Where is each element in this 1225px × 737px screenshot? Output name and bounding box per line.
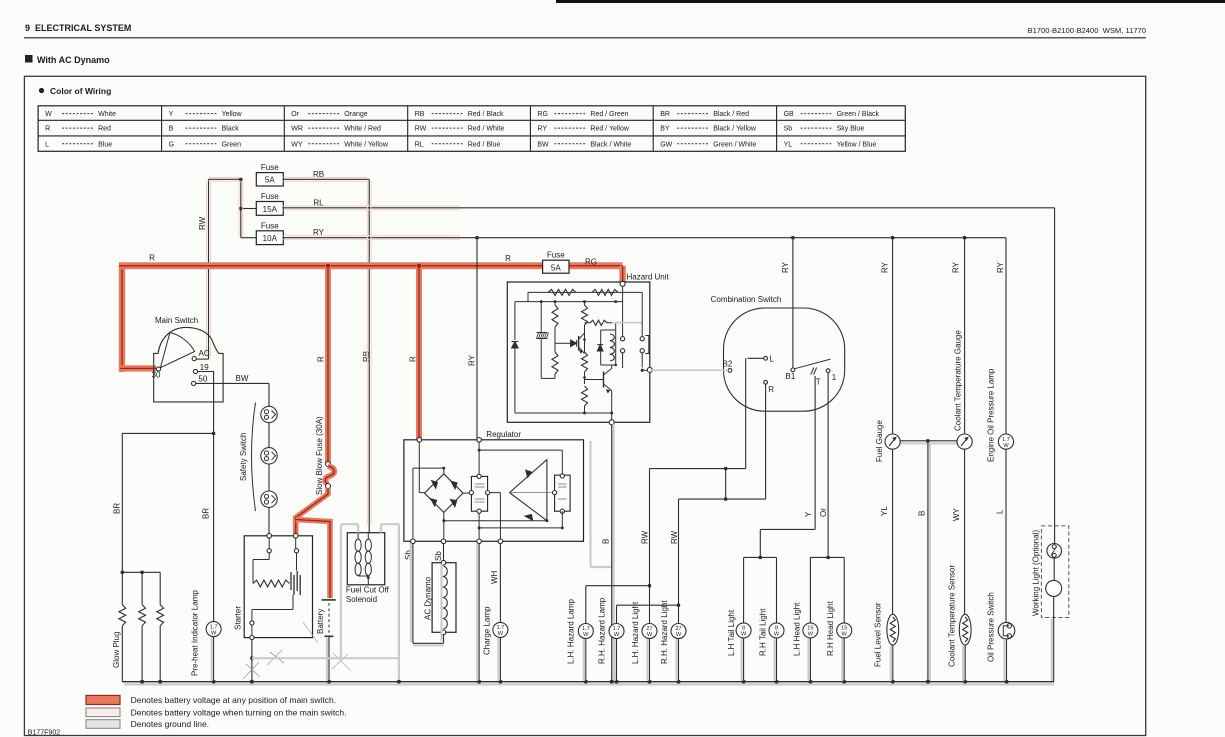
wire RB from fuse 5A bbox=[283, 178, 369, 180]
hazard unit resistor branch 1 bbox=[552, 305, 558, 327]
combination switch terminal R bbox=[764, 380, 768, 384]
svg-text:B: B bbox=[169, 126, 174, 133]
svg-text:R: R bbox=[768, 385, 774, 394]
regulator bottom terminals bbox=[411, 539, 416, 544]
gray wire hazard to B2 bbox=[651, 369, 729, 371]
combination switch terminal 1 bbox=[826, 369, 830, 373]
svg-text:L: L bbox=[45, 141, 49, 148]
wire B hazard to ground bbox=[611, 425, 613, 682]
regulator box bbox=[404, 440, 584, 542]
svg-text:BY: BY bbox=[660, 126, 670, 133]
fuel gauge bbox=[885, 434, 900, 449]
hazard unit terminal right bbox=[647, 367, 652, 372]
ground bus junctions bbox=[140, 680, 144, 684]
wire Y from T terminal bbox=[814, 376, 816, 529]
ground bus gray band bbox=[124, 683, 1054, 685]
solenoid coil left bbox=[355, 539, 361, 551]
svg-text:W: W bbox=[45, 111, 52, 118]
svg-text:Fuse: Fuse bbox=[547, 251, 565, 260]
wire WH bbox=[499, 544, 501, 623]
glow plug junction 1 bbox=[121, 571, 124, 574]
svg-text:RB: RB bbox=[362, 351, 371, 362]
svg-text:9 ELECTRICAL SYSTEM: 9 ELECTRICAL SYSTEM bbox=[25, 23, 131, 33]
safety switch contact 2 bbox=[261, 448, 277, 464]
hazard unit capacitor branch bbox=[540, 302, 542, 332]
svg-text:L.H Head Light: L.H Head Light bbox=[792, 602, 801, 656]
svg-text:B177F902: B177F902 bbox=[28, 730, 60, 737]
svg-text:L: L bbox=[996, 509, 1005, 514]
regulator pilot coil box bbox=[555, 475, 571, 511]
svg-text:Or: Or bbox=[819, 508, 828, 517]
color of wiring heading bbox=[39, 88, 44, 93]
red branch R to slow blow fuse bbox=[325, 266, 331, 463]
svg-text:BR: BR bbox=[113, 503, 122, 514]
ac dynamo terminal top bbox=[441, 560, 446, 565]
combination switch terminal L bbox=[764, 356, 768, 360]
svg-text:RW: RW bbox=[670, 530, 679, 544]
red wire fuse to starter bbox=[296, 488, 328, 534]
hazard unit relay coil bbox=[601, 329, 616, 331]
starter internal link to solenoid contact bbox=[292, 595, 294, 610]
svg-text:WY: WY bbox=[952, 507, 961, 521]
svg-text:Working Light (Optional): Working Light (Optional) bbox=[1032, 530, 1041, 616]
starter contact plates bbox=[290, 572, 292, 590]
svg-text:White / Red: White / Red bbox=[344, 126, 381, 133]
pre-heat indicator lamp bbox=[206, 622, 221, 637]
wire BR to glow plugs bbox=[122, 432, 213, 434]
red wire fuse to battery bbox=[296, 520, 330, 599]
svg-text:B2: B2 bbox=[723, 360, 733, 369]
hazard unit gray link bbox=[612, 322, 642, 324]
svg-text:R: R bbox=[409, 356, 418, 362]
svg-text:Sb: Sb bbox=[784, 126, 793, 133]
svg-text:5A: 5A bbox=[551, 263, 561, 272]
svg-text:L.H. Hazard Light: L.H. Hazard Light bbox=[631, 601, 640, 664]
svg-text:YL: YL bbox=[880, 506, 889, 516]
red wire into main switch terminal 30 bbox=[120, 365, 156, 371]
legend red box bbox=[86, 695, 120, 704]
svg-text:White / Yellow: White / Yellow bbox=[344, 141, 389, 148]
hazard unit resistor branch 2 bbox=[582, 305, 588, 325]
svg-text:Starter: Starter bbox=[234, 606, 243, 630]
coolant temperature sensor ground bbox=[964, 645, 966, 682]
hazard unit transistor Q1 bbox=[578, 336, 580, 351]
RH tail light bbox=[769, 623, 784, 638]
svg-text:RB: RB bbox=[415, 111, 425, 118]
svg-text:RW: RW bbox=[641, 530, 650, 544]
svg-text:RY: RY bbox=[881, 261, 890, 273]
main switch terminal 30 bbox=[156, 367, 160, 371]
svg-text:YL: YL bbox=[784, 141, 793, 148]
svg-text:Coolant Temperature Gauge: Coolant Temperature Gauge bbox=[954, 330, 963, 431]
red junction regulator branch bbox=[417, 264, 421, 268]
svg-text:Fuse: Fuse bbox=[261, 163, 279, 172]
svg-text:Safety Switch: Safety Switch bbox=[239, 433, 248, 481]
svg-text:W: W bbox=[808, 632, 814, 638]
regulator terminal R bbox=[417, 438, 422, 443]
svg-text:W: W bbox=[842, 632, 848, 638]
wire RW2 bbox=[678, 499, 680, 623]
svg-text:RW: RW bbox=[198, 216, 207, 230]
svg-text:50: 50 bbox=[198, 374, 207, 383]
wire BR from terminal 19 bbox=[198, 371, 214, 373]
pink print fringe near fuse block bbox=[206, 181, 208, 357]
regulator internal feed lines bbox=[418, 442, 420, 493]
wire RW1 bbox=[649, 469, 651, 624]
wire RY to B1 bbox=[792, 238, 794, 368]
regulator pilot link line bbox=[510, 492, 555, 494]
svg-text:T: T bbox=[816, 377, 821, 386]
solenoid feed stubs bbox=[357, 533, 359, 539]
wire from L terminal bbox=[748, 357, 764, 359]
ac dynamo terminal bottom bbox=[441, 630, 446, 635]
hazard unit coupling diode bbox=[563, 342, 571, 344]
svg-text:Red / Blue: Red / Blue bbox=[468, 141, 501, 148]
battery cell dashes bbox=[328, 603, 330, 634]
wire L oil lamp to switch bbox=[1005, 449, 1007, 622]
svg-text:R.H. Hazard Light: R.H. Hazard Light bbox=[660, 600, 669, 664]
hazard unit second rail bbox=[515, 301, 623, 303]
starter internal wiring bbox=[268, 538, 270, 549]
svg-text:G: G bbox=[169, 141, 174, 148]
main switch terminal 50 bbox=[192, 381, 196, 385]
junction at fuse feeder top bbox=[239, 178, 242, 181]
starter terminal right bbox=[293, 534, 298, 539]
svg-text:15A: 15A bbox=[263, 205, 278, 214]
wire RY to regulator bbox=[476, 238, 478, 439]
pencil cross marks bbox=[246, 664, 260, 677]
svg-text:RG: RG bbox=[537, 111, 548, 118]
svg-text:R.H Tail Light: R.H Tail Light bbox=[758, 608, 767, 656]
svg-text:RY: RY bbox=[781, 261, 790, 273]
starter resistor bbox=[253, 580, 290, 587]
solenoid coil bottom link bbox=[358, 575, 368, 577]
ac dynamo winding bbox=[444, 566, 448, 629]
svg-text:Engine Oil Pressure Lamp: Engine Oil Pressure Lamp bbox=[987, 368, 996, 462]
svg-text:Pre-heat Indicator Lamp: Pre-heat Indicator Lamp bbox=[191, 590, 200, 676]
svg-text:Or: Or bbox=[291, 111, 299, 118]
svg-text:RG: RG bbox=[585, 257, 597, 266]
svg-text:19: 19 bbox=[200, 363, 209, 372]
tail light pair feed bbox=[744, 556, 777, 558]
battery negative plate bbox=[325, 635, 334, 637]
junction at fuse feeder middle bbox=[239, 207, 242, 210]
svg-text:Y: Y bbox=[804, 511, 813, 517]
glow plug branch wires bbox=[122, 571, 160, 573]
hazard unit terminal top bbox=[620, 281, 625, 286]
hazard unit contact column bbox=[622, 286, 624, 336]
svg-text:Charge Lamp: Charge Lamp bbox=[483, 606, 492, 655]
working light dashed box bbox=[1041, 526, 1068, 618]
wire RW from main switch AC to fuse feed bbox=[208, 179, 210, 359]
svg-text:White: White bbox=[98, 111, 116, 118]
svg-text:Combination Switch: Combination Switch bbox=[711, 295, 782, 304]
wire RY to coolant gauge bbox=[964, 238, 966, 434]
svg-text:1: 1 bbox=[832, 373, 837, 382]
regulator relay to WH link bbox=[490, 492, 501, 494]
regulator bridge to relay link bbox=[463, 492, 469, 494]
battery positive plate bbox=[322, 599, 336, 601]
svg-text:W: W bbox=[498, 631, 504, 637]
page top edge line bbox=[556, 0, 1225, 3]
svg-text:Red / Black: Red / Black bbox=[468, 111, 504, 118]
svg-text:Green / Black: Green / Black bbox=[837, 111, 880, 118]
working light ground bbox=[1053, 596, 1055, 681]
header rule bbox=[24, 37, 1146, 39]
svg-text:Color of Wiring: Color of Wiring bbox=[50, 86, 111, 96]
svg-text:Oil Pressure Switch: Oil Pressure Switch bbox=[986, 592, 995, 662]
svg-text:Red: Red bbox=[98, 126, 111, 133]
RH hazard lamp bbox=[609, 624, 624, 639]
svg-text:R.H Head Light: R.H Head Light bbox=[826, 601, 835, 656]
svg-text:Black / Yellow: Black / Yellow bbox=[713, 126, 757, 133]
LH hazard light bbox=[642, 624, 657, 639]
regulator bottom rail 1 bbox=[443, 512, 445, 520]
svg-text:R: R bbox=[149, 254, 155, 263]
starter terminal left bbox=[267, 534, 272, 539]
wire Sb to dynamo bbox=[443, 544, 445, 561]
LH tail light bbox=[736, 623, 751, 638]
oil pressure switch ground bbox=[1006, 639, 1008, 682]
svg-text:Red / Yellow: Red / Yellow bbox=[590, 126, 629, 133]
svg-text:B: B bbox=[918, 511, 927, 516]
charge lamp bbox=[493, 622, 508, 637]
svg-text:L: L bbox=[770, 354, 775, 363]
svg-text:Glow Plug: Glow Plug bbox=[112, 632, 121, 668]
glow plug ground wires bbox=[121, 626, 123, 682]
svg-text:Sb: Sb bbox=[434, 551, 443, 561]
hazard unit top rail bbox=[528, 291, 642, 293]
safety switch bracket bbox=[252, 403, 256, 512]
wire B gauges to ground bbox=[927, 441, 929, 682]
svg-text:Denotes battery voltage at any: Denotes battery voltage at any position … bbox=[131, 695, 337, 705]
red junction slow blow branch bbox=[326, 264, 330, 268]
hazard unit push button bbox=[641, 292, 643, 336]
wiring color table bbox=[38, 106, 905, 152]
regulator charge relay box bbox=[471, 476, 487, 511]
working light lamp bbox=[1046, 580, 1062, 596]
fuel level sensor bbox=[887, 614, 899, 645]
wire to RH hazard lamp bbox=[677, 604, 680, 607]
svg-text:Solenoid: Solenoid bbox=[346, 595, 377, 604]
ac dynamo box bbox=[432, 563, 456, 633]
fuse feeder bus bbox=[240, 179, 242, 237]
LH head light bbox=[803, 623, 818, 638]
svg-text:Regulator: Regulator bbox=[486, 430, 521, 439]
svg-text:GB: GB bbox=[784, 111, 794, 118]
svg-text:Sky Blue: Sky Blue bbox=[837, 126, 865, 133]
section marker With AC Dynamo bbox=[25, 55, 33, 63]
svg-text:WH: WH bbox=[490, 570, 499, 584]
svg-text:Black / White: Black / White bbox=[590, 141, 631, 148]
charge lamp feed wire bbox=[478, 544, 480, 682]
coolant temperature sensor bbox=[959, 614, 971, 645]
svg-text:Blue: Blue bbox=[98, 141, 112, 148]
working light link bbox=[1053, 558, 1055, 580]
working light switch bbox=[1047, 544, 1062, 559]
ground line solenoid loop bbox=[357, 524, 359, 533]
wire fuse inputs bbox=[241, 208, 256, 210]
wire B2 link bbox=[725, 469, 727, 500]
svg-text:RL: RL bbox=[415, 141, 424, 148]
oil pressure switch bbox=[998, 622, 1015, 639]
RH hazard light bbox=[671, 624, 686, 639]
combination switch lever bbox=[795, 359, 831, 369]
hazard unit transistor Q2 bbox=[603, 372, 605, 388]
svg-text:Battery: Battery bbox=[316, 609, 325, 634]
starter inner contact left bbox=[267, 549, 271, 553]
svg-text:L.H. Hazard Lamp: L.H. Hazard Lamp bbox=[567, 599, 576, 664]
regulator bridge top feed bbox=[413, 467, 444, 469]
main switch terminal 19 bbox=[193, 369, 197, 373]
svg-text:Black / Red: Black / Red bbox=[713, 111, 749, 118]
safety switch contact 3 bbox=[261, 491, 277, 507]
battery voltage red bus R bbox=[119, 266, 125, 372]
gauge link wire bbox=[901, 442, 957, 444]
main switch terminal AC bbox=[192, 357, 196, 361]
svg-text:AC: AC bbox=[199, 349, 210, 358]
svg-text:W: W bbox=[774, 632, 780, 638]
fuel cut off solenoid box bbox=[347, 533, 384, 585]
svg-text:W: W bbox=[647, 632, 653, 638]
main switch key sector bbox=[160, 333, 194, 368]
hazard unit box bbox=[507, 282, 650, 422]
svg-text:Orange: Orange bbox=[344, 111, 367, 118]
svg-text:R: R bbox=[317, 356, 326, 362]
svg-text:Main Switch: Main Switch bbox=[155, 316, 198, 325]
svg-text:Yellow: Yellow bbox=[222, 111, 243, 118]
wire AC elbow bbox=[196, 358, 208, 360]
wire BW from terminal 50 bbox=[196, 382, 269, 384]
battery ground wire bbox=[328, 636, 330, 681]
wire RL from fuse 15A bbox=[283, 207, 1054, 209]
svg-text:Hazard Unit: Hazard Unit bbox=[627, 273, 670, 282]
svg-text:AC Dynamo: AC Dynamo bbox=[424, 576, 433, 620]
glow plug resistor 3 bbox=[157, 605, 164, 626]
RH head light bbox=[837, 623, 852, 638]
svg-text:BW: BW bbox=[537, 141, 549, 148]
svg-text:BW: BW bbox=[236, 374, 249, 383]
wire Or from terminal 1 bbox=[827, 373, 829, 558]
svg-text:RY: RY bbox=[996, 261, 1005, 273]
svg-text:Denotes battery voltage when t: Denotes battery voltage when turning on … bbox=[131, 707, 347, 717]
svg-text:RY: RY bbox=[468, 354, 477, 366]
wire YL fuel gauge to sensor bbox=[892, 449, 894, 614]
svg-text:RY: RY bbox=[952, 261, 961, 273]
combination switch terminal T bbox=[811, 368, 814, 375]
main switch body bbox=[154, 327, 223, 402]
legend gray box bbox=[86, 720, 120, 729]
starter ground wire bbox=[251, 640, 253, 682]
svg-text:Black: Black bbox=[222, 126, 240, 133]
LH hazard lamp bbox=[578, 624, 593, 639]
svg-text:W: W bbox=[614, 632, 620, 638]
svg-text:W: W bbox=[741, 632, 747, 638]
combination switch terminal B1 bbox=[791, 368, 795, 372]
svg-text:Denotes ground line.: Denotes ground line. bbox=[131, 719, 209, 729]
hazard unit terminal bottom bbox=[609, 420, 614, 425]
svg-text:RW: RW bbox=[415, 126, 427, 133]
svg-text:L.H Tail Light: L.H Tail Light bbox=[727, 609, 736, 656]
svg-text:B: B bbox=[602, 539, 611, 544]
svg-text:Fuse: Fuse bbox=[261, 192, 279, 201]
head light pair feed bbox=[810, 556, 844, 558]
svg-text:W: W bbox=[676, 632, 682, 638]
engine oil pressure lamp bbox=[998, 434, 1013, 449]
wire RY from fuse 10A bbox=[283, 237, 1006, 239]
hazard unit bottom rail bbox=[515, 412, 612, 414]
svg-text:Fuel Cut Off: Fuel Cut Off bbox=[346, 586, 390, 595]
svg-text:W: W bbox=[211, 630, 217, 636]
starter inner contact right bbox=[294, 549, 298, 553]
svg-text:Y: Y bbox=[169, 111, 174, 118]
svg-text:B1: B1 bbox=[786, 372, 796, 381]
regulator thyristor triangle bbox=[510, 460, 547, 521]
svg-text:Fuel Gauge: Fuel Gauge bbox=[875, 420, 884, 462]
svg-text:30: 30 bbox=[152, 371, 161, 380]
red branch R to regulator bbox=[416, 266, 422, 440]
wire from R terminal bbox=[765, 384, 767, 499]
svg-text:BR: BR bbox=[660, 111, 670, 118]
svg-text:R: R bbox=[45, 126, 50, 133]
svg-text:R: R bbox=[505, 254, 511, 263]
svg-text:Fuse: Fuse bbox=[261, 221, 279, 230]
svg-text:W: W bbox=[583, 632, 589, 638]
safety switch links bbox=[268, 423, 270, 448]
solenoid coil right bbox=[365, 539, 371, 551]
svg-text:10A: 10A bbox=[263, 234, 278, 243]
glow plug resistor 1 bbox=[119, 605, 126, 626]
svg-text:Red / White: Red / White bbox=[468, 126, 505, 133]
wire Sb left loop bbox=[412, 544, 414, 644]
starter box bbox=[244, 536, 312, 638]
regulator diode bridge bbox=[425, 474, 464, 513]
hazard unit bias resistor bbox=[585, 322, 591, 324]
legend pink box bbox=[86, 708, 120, 717]
safety switch contact 1 bbox=[261, 406, 277, 422]
svg-text:Green: Green bbox=[222, 141, 242, 148]
svg-text:With AC Dynamo: With AC Dynamo bbox=[37, 55, 110, 65]
charge lamp ground bbox=[499, 637, 501, 681]
coolant temperature gauge bbox=[957, 434, 972, 449]
svg-text:B1700·B2100·B2400 WSM, 11770: B1700·B2100·B2400 WSM, 11770 bbox=[1028, 26, 1146, 35]
fuel level sensor ground bbox=[892, 645, 894, 682]
wire to LH hazard lamp bbox=[648, 584, 651, 587]
svg-text:W: W bbox=[1003, 443, 1009, 449]
svg-text:R.H. Hazard Lamp: R.H. Hazard Lamp bbox=[598, 597, 607, 664]
svg-text:RY: RY bbox=[537, 126, 547, 133]
regulator bottom rail 2 bbox=[478, 513, 480, 528]
regulator terminal RY bbox=[477, 438, 482, 443]
hazard unit left branch diode bbox=[514, 302, 516, 340]
svg-text:WY: WY bbox=[291, 141, 303, 148]
ground line bands regulator area bbox=[410, 544, 412, 642]
ground line hazard elbow bbox=[589, 441, 591, 567]
combination switch body bbox=[724, 308, 845, 411]
svg-text:BR: BR bbox=[202, 508, 211, 519]
wire RY to fuel gauge bbox=[892, 238, 894, 434]
svg-text:Fuel Level Sensor: Fuel Level Sensor bbox=[873, 602, 882, 667]
svg-text:Coolant Temperature Sensor: Coolant Temperature Sensor bbox=[947, 565, 956, 667]
starter solenoid contact circles bbox=[250, 621, 254, 625]
ground bus line bbox=[122, 681, 1054, 683]
svg-text:Green / White: Green / White bbox=[713, 141, 756, 148]
svg-text:Red / Green: Red / Green bbox=[590, 111, 628, 118]
svg-text:Yellow / Blue: Yellow / Blue bbox=[837, 141, 877, 148]
svg-text:WR: WR bbox=[291, 126, 303, 133]
pre-heat indicator lamp ground bbox=[213, 637, 215, 682]
svg-text:GW: GW bbox=[660, 141, 672, 148]
